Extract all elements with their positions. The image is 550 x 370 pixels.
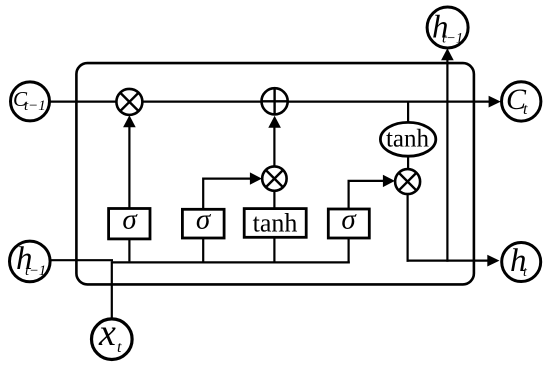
wire sigma3 bottom tap [348,238,350,264]
LSTM cell body rounded rectangle [76,63,474,284]
sigma box 2 (input gate) [182,204,224,239]
wire h-input horizontal left segment [50,259,113,261]
wire tanh-box bottom tap [273,237,275,263]
svg-text:tanh: tanh [386,126,430,153]
wire multiplier X2 to adder riser [273,125,275,167]
svg-text:t: t [523,101,528,118]
svg-text:σ: σ [341,204,357,236]
svg-text:σ: σ [122,204,138,236]
arrowhead into h_t [487,255,499,267]
arrowhead into adder [268,116,281,128]
sigma box 3 (output gate) [328,204,369,239]
arrowhead into c_t [489,96,501,108]
multiplier X2 (input gate product) [262,166,286,190]
node c_t output circle [502,82,541,121]
node h_{t-1} top output circle [427,7,468,48]
wire sigma1 bottom tap [128,239,130,262]
node h_{t-1} input circle [10,241,51,282]
wire sigma3 top elbow to multiplier X3 [349,181,385,209]
wire h-output branch riser to top [446,58,448,262]
wire h-output horizontal [407,260,491,262]
svg-text:tanh: tanh [253,209,298,238]
arrowhead into multiplier X2 [250,172,262,184]
sigma box 1 (forget gate) [109,204,150,239]
wire sigma2 top elbow to multiplier X2 [203,179,252,210]
node x_t input circle [92,312,133,360]
tanh box (candidate activation) [244,209,306,238]
wire multiplier X3 down leg [407,194,409,262]
arrowhead into multiplier X3 [383,175,395,187]
svg-text:t−1: t−1 [442,31,463,47]
wire x_t vertical riser [111,261,113,319]
svg-text:σ: σ [196,204,212,236]
node h_t output circle [502,243,541,282]
multiplier X1 (forget gate product) [116,89,142,115]
arrowhead into top h circle [441,48,454,60]
node c_{t-1} input circle [11,82,50,121]
svg-text:t−1: t−1 [25,263,46,279]
svg-text:t: t [117,339,122,356]
wire sigma1 top riser to multiplier [128,124,130,209]
tanh ellipse (cell output activation) [380,122,435,156]
arrowhead into multiplier X1 [123,115,136,127]
wire tanh ellipse down to multiplier X3 [407,156,409,169]
multiplier X3 (output gate product) [395,169,420,194]
svg-text:x: x [98,312,116,354]
svg-text:t−1: t−1 [24,98,46,114]
adder (cell state sum) [262,88,288,114]
wire c-line down to tanh ellipse [407,102,409,123]
wire tanh-box top to multiplier X2 [273,191,275,209]
wire sigma2 bottom tap [202,238,204,263]
wire h-input horizontal right segment [112,261,350,263]
wire c-line horizontal [50,100,491,102]
